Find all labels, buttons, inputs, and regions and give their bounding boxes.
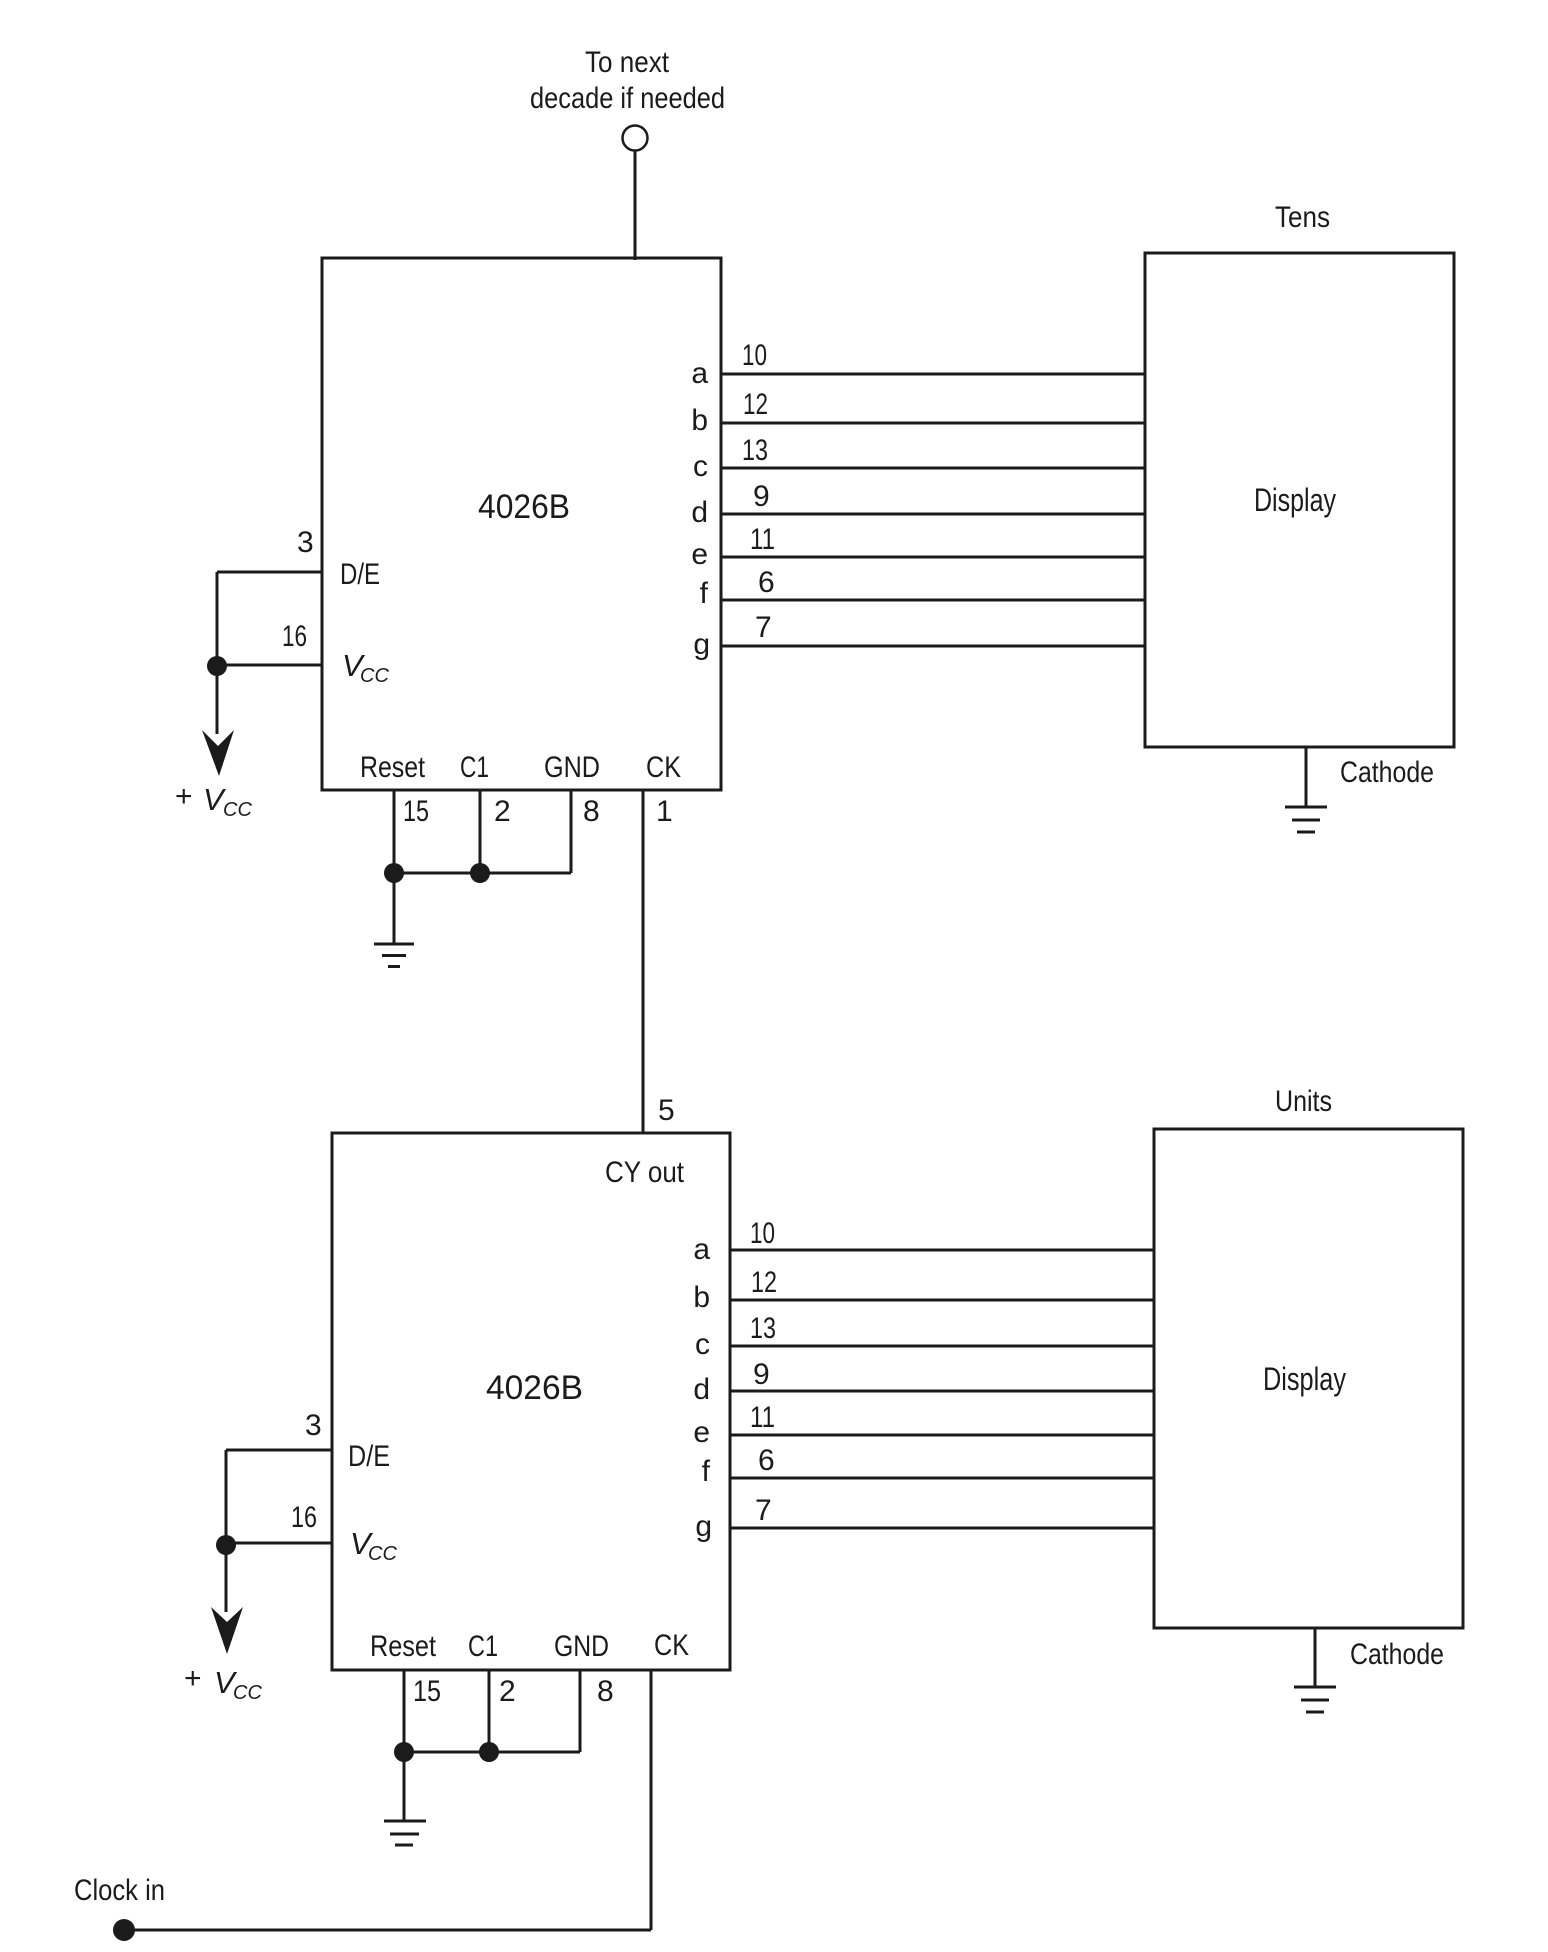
svg-text:Cathode: Cathode [1350,1638,1444,1671]
svg-text:Clock in: Clock in [74,1874,165,1907]
svg-text:15: 15 [403,795,429,828]
svg-text:16: 16 [291,1501,317,1534]
svg-text:CC: CC [233,1682,262,1704]
svg-text:f: f [702,1455,711,1488]
svg-text:CC: CC [368,1543,397,1565]
svg-text:15: 15 [413,1675,441,1708]
svg-text:e: e [693,1416,710,1449]
svg-text:4026B: 4026B [478,488,570,526]
svg-text:decade if needed: decade if needed [530,82,725,115]
svg-text:D/E: D/E [348,1440,390,1473]
svg-text:11: 11 [750,1401,775,1434]
svg-text:Reset: Reset [370,1630,437,1663]
svg-text:9: 9 [753,480,770,513]
svg-text:Units: Units [1275,1085,1332,1118]
svg-text:GND: GND [544,751,600,784]
svg-text:f: f [700,577,709,610]
svg-text:CK: CK [646,751,681,784]
svg-text:Tens: Tens [1275,201,1330,234]
svg-text:10: 10 [750,1217,775,1250]
svg-text:a: a [691,357,708,390]
svg-text:2: 2 [494,795,511,828]
svg-text:4026B: 4026B [486,1369,583,1407]
svg-text:Cathode: Cathode [1340,756,1434,789]
svg-text:8: 8 [597,1675,614,1708]
svg-text:13: 13 [742,434,768,467]
svg-text:C1: C1 [460,751,489,784]
svg-text:CK: CK [654,1629,689,1662]
svg-text:7: 7 [755,611,772,644]
svg-text:3: 3 [305,1409,322,1442]
svg-text:CC: CC [223,799,252,821]
svg-text:13: 13 [750,1312,776,1345]
svg-text:CC: CC [360,665,389,687]
svg-text:Display: Display [1254,482,1336,518]
svg-text:c: c [695,1328,710,1361]
svg-text:C1: C1 [468,1630,498,1663]
svg-text:b: b [693,1281,710,1314]
svg-text:10: 10 [742,339,767,372]
svg-text:d: d [693,1373,710,1406]
svg-text:12: 12 [743,388,768,421]
svg-text:5: 5 [658,1094,675,1127]
svg-text:12: 12 [751,1266,777,1299]
svg-text:16: 16 [282,620,307,653]
svg-text:d: d [691,496,708,529]
svg-text:b: b [691,404,708,437]
svg-text:3: 3 [297,526,314,559]
svg-text:2: 2 [499,1675,516,1708]
svg-text:GND: GND [554,1630,609,1663]
svg-text:c: c [693,450,708,483]
svg-text:D/E: D/E [340,558,380,591]
svg-text:6: 6 [758,566,775,599]
svg-text:e: e [691,538,708,571]
svg-text:7: 7 [755,1494,772,1527]
svg-text:+: + [175,780,193,813]
svg-text:6: 6 [758,1444,775,1477]
svg-text:1: 1 [656,795,673,828]
svg-text:To next: To next [585,46,670,79]
svg-text:Display: Display [1263,1361,1346,1397]
svg-text:9: 9 [753,1358,770,1391]
svg-text:a: a [693,1233,710,1266]
svg-text:Reset: Reset [360,751,426,784]
svg-text:g: g [693,628,710,661]
svg-text:11: 11 [750,523,775,556]
svg-text:g: g [695,1510,712,1543]
svg-text:8: 8 [583,795,600,828]
svg-text:CY out: CY out [605,1156,685,1189]
svg-text:+: + [184,1662,202,1695]
